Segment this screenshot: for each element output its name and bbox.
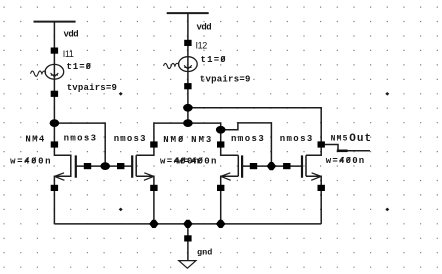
svg-text:w=400n: w=400n bbox=[326, 156, 366, 166]
svg-text:NM4: NM4 bbox=[25, 135, 45, 145]
svg-text:w=400n: w=400n bbox=[10, 156, 52, 166]
svg-text:w=400n: w=400n bbox=[178, 156, 218, 166]
svg-text:tvpairs=9: tvpairs=9 bbox=[67, 83, 117, 93]
svg-text:nmos3: nmos3 bbox=[280, 134, 314, 144]
svg-text:I11: I11 bbox=[63, 49, 74, 59]
svg-text:NM5: NM5 bbox=[331, 134, 349, 143]
svg-text:nmos3: nmos3 bbox=[114, 134, 147, 144]
svg-text:gnd: gnd bbox=[197, 247, 212, 257]
svg-text:NM3: NM3 bbox=[191, 135, 213, 145]
svg-text:vdd: vdd bbox=[197, 22, 212, 32]
svg-text:Out: Out bbox=[349, 133, 372, 145]
svg-text:nmos3: nmos3 bbox=[231, 134, 265, 144]
svg-text:nmos3: nmos3 bbox=[64, 134, 98, 144]
svg-text:I12: I12 bbox=[196, 41, 208, 51]
svg-text:tvpairs=9: tvpairs=9 bbox=[200, 75, 251, 85]
svg-text:t1=0: t1=0 bbox=[201, 55, 227, 65]
svg-text:vdd: vdd bbox=[64, 30, 79, 40]
svg-text:t1=0: t1=0 bbox=[66, 62, 92, 72]
